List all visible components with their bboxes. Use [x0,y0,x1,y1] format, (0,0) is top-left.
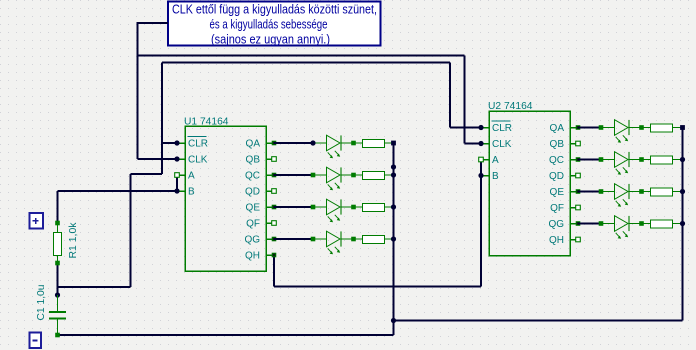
node U2 row 6 cathode terminal [639,157,644,162]
svg-text:QA: QA [246,139,261,150]
resistor U2 row 6 [651,156,683,164]
wire U1 row 1 input [274,142,313,144]
wire U2 row 7 input [578,191,601,193]
wire to U1 CLR pin [162,142,177,144]
LED D8 (U2) [601,216,651,239]
svg-text:A: A [188,171,195,182]
pin U2 QB stub [576,141,581,146]
junction negative bus corner [391,318,396,323]
wire U2 A-B tie [480,160,482,176]
node U2 row 6 anode terminal [599,157,604,162]
junction R1/C1/CLR node [55,292,60,297]
svg-text:QC: QC [549,155,564,166]
wire CLR net vertical left [161,63,163,175]
pin U1 QF stub [272,221,277,226]
resistor U2 row 8 [651,220,683,228]
junction U1 bus row2 [391,172,396,177]
wire CLR net vertical down [130,174,132,287]
wire CLR net long horizontal [162,62,450,64]
svg-text:QF: QF [246,219,260,230]
wire R1 bottom vertical [57,263,59,295]
wire U2 row 5 input [578,127,601,129]
svg-text:QD: QD [549,171,564,182]
svg-text:R1 1,0k: R1 1,0k [68,221,79,258]
wire CLK net vertical left [137,22,139,159]
node U2 bus top terminal [680,125,685,130]
wire negative bus middle horizontal [394,320,683,322]
wire U1 A-B tie [176,175,178,191]
junction U2 CLR pin [478,125,483,130]
wire U2 LED return bus vertical [682,128,684,321]
svg-text:QH: QH [245,251,260,262]
svg-text:(sajnos ez ugyan annyi.): (sajnos ez ugyan annyi.) [211,33,330,47]
resistor R1 1,0k [54,221,80,266]
node U1 row 1 cathode terminal [351,141,356,146]
node U1 row 4 anode terminal [311,237,316,242]
pin U1 QC [272,173,277,178]
wire U1 QH to U2 horizontal [274,286,481,288]
junction U1 CLR pin [174,140,179,145]
node U2 row 8 cathode terminal [639,221,644,226]
svg-text:QH: QH [549,235,564,246]
junction U2 bus row4 [680,221,685,226]
node U1 bus top terminal [391,141,396,146]
wire CLR net to RC junction [58,286,131,288]
resistor U2 row 7 [651,188,683,196]
wire to U2 CLK pin [465,143,482,145]
LED D5 (U2) [601,120,651,143]
svg-text:B: B [188,187,195,198]
LED D3 (U1) [313,199,363,222]
wire negative bus jog [393,321,395,336]
pin U2 QC [576,157,581,162]
wire CLR net vertical right [449,63,451,128]
node U2 row 7 cathode terminal [639,189,644,194]
junction U1 bus extra [391,164,396,169]
pin U1 QA [272,141,277,146]
svg-text:B: B [492,171,499,182]
annotation text box (CLK note) [168,2,381,47]
pin U2 QF stub [576,205,581,210]
junction U1 CLK pin [174,156,179,161]
resistor U1 row 2 [363,172,394,180]
wire U2 row 8 input [578,223,601,225]
resistor U2 row 5 [651,124,683,132]
wire CLR net jog horizontal [131,173,163,175]
svg-text:QE: QE [246,203,261,214]
svg-text:QG: QG [548,219,564,230]
junction U2 bus row3 [680,189,685,194]
node U1 row 2 cathode terminal [351,173,356,178]
svg-text:U2 74164: U2 74164 [488,101,533,112]
pin U1 QG [272,237,277,242]
node U1 row 3 cathode terminal [351,205,356,210]
svg-text:U1 74164: U1 74164 [184,117,229,128]
wire U1 QH down [273,255,275,287]
wire negative bus bottom [58,334,394,336]
svg-text:CLK: CLK [492,139,512,150]
pin U1 QH [272,253,277,258]
IC U1 74164 shift register [177,117,274,272]
wire CLK net vertical right [464,56,466,144]
negative supply terminal (-) [30,333,42,349]
wire U1 row 3 input [274,206,313,208]
svg-text:QD: QD [245,187,260,198]
junction U1 B pin [174,188,179,193]
wire U1 row 4 input [274,238,313,240]
junction U2 bus row2 [680,157,685,162]
wire R1 top vertical [57,191,59,223]
wire U2 row 6 input [578,159,601,161]
node U2 row 5 cathode terminal [639,125,644,130]
svg-text:A: A [492,155,499,166]
IC U2 74164 shift register [481,101,578,256]
pin U1 QE [272,205,277,210]
LED D1 (U1) [313,135,363,158]
svg-text:C1 1,0u: C1 1,0u [36,285,47,321]
LED D7 (U2) [601,184,651,207]
pin U2 QA [576,125,581,130]
svg-text:QF: QF [550,203,564,214]
pin U2 QG [576,221,581,226]
positive supply terminal (+) [30,213,44,229]
svg-text:QB: QB [550,139,565,150]
wire U1 LED return bus vertical [393,143,395,321]
wire U1 B to R1 top [58,190,178,192]
junction U1 bus row4 [391,236,396,241]
pin U1 A terminal [175,173,180,178]
svg-text:QA: QA [550,123,565,134]
pin U1 QD stub [272,189,277,194]
pin U2 QD stub [576,173,581,178]
svg-text:QG: QG [244,235,260,246]
resistor U1 row 1 [363,140,394,148]
resistor U1 row 3 [363,204,394,212]
node U2 row 8 anode terminal [599,221,604,226]
LED D2 (U1) [313,167,363,190]
node U1 row 4 cathode terminal [351,237,356,242]
wire textbox to CLK vertical [138,22,169,24]
svg-text:QB: QB [246,155,261,166]
wire up to U2 B [480,176,482,287]
junction U2 CLK pin [478,141,483,146]
svg-text:CLK: CLK [188,155,208,166]
pin U1 QB stub [272,157,277,162]
resistor U1 row 4 [363,236,394,244]
node U1 row 2 anode terminal [311,173,316,178]
junction U2 B pin [478,173,483,178]
svg-text:CLR: CLR [492,123,512,134]
wire U1 row 2 input [274,174,313,176]
junction U1 bus row3 [391,204,396,209]
node U2 row 7 anode terminal [599,189,604,194]
svg-text:CLK ettől függ a kigyulladás k: CLK ettől függ a kigyulladás közötti szü… [172,2,377,16]
LED D6 (U2) [601,152,651,175]
svg-text:QE: QE [550,187,565,198]
pin U2 A terminal [479,157,484,162]
pin U2 QH stub [576,237,581,242]
wire to U1 CLK pin [138,158,178,160]
svg-text:QC: QC [245,171,260,182]
LED D4 (U1) [313,231,363,254]
junction U1 row 1 anode [310,140,315,145]
node U1 row 3 anode terminal [311,205,316,210]
pin U2 QE [576,189,581,194]
svg-text:és a kigyulladás sebessége: és a kigyulladás sebessége [210,18,328,32]
svg-text:CLR: CLR [188,139,208,150]
capacitor C1 1,0u [36,285,66,338]
node U2 row 5 anode terminal [599,125,604,130]
wire CLK net long horizontal [138,55,465,57]
wire to U2 CLR pin [450,127,481,129]
